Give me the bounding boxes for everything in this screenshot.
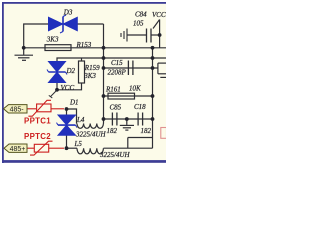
- svg-text:3225/4UH: 3225/4UH: [75, 131, 107, 139]
- svg-text:PPTC2: PPTC2: [24, 132, 51, 141]
- svg-text:2208P: 2208P: [108, 69, 127, 77]
- svg-text:485-: 485-: [10, 107, 25, 114]
- svg-text:R161: R161: [105, 85, 121, 93]
- svg-text:3225/4UH: 3225/4UH: [99, 151, 131, 159]
- svg-text:182: 182: [141, 127, 152, 135]
- svg-text:C84: C84: [135, 11, 147, 19]
- svg-text:3K3: 3K3: [83, 72, 96, 80]
- svg-text:VCC: VCC: [152, 11, 166, 19]
- svg-text:VCC: VCC: [61, 84, 75, 92]
- svg-text:C85: C85: [110, 103, 122, 111]
- svg-text:L5: L5: [74, 140, 83, 148]
- svg-text:R159: R159: [84, 64, 100, 72]
- svg-text:C18: C18: [134, 103, 146, 111]
- svg-text:D2: D2: [66, 67, 76, 75]
- svg-text:C15: C15: [111, 59, 123, 67]
- svg-text:3K3: 3K3: [46, 36, 59, 44]
- svg-text:PPTC1: PPTC1: [24, 117, 51, 126]
- svg-text:182: 182: [107, 127, 118, 135]
- svg-text:105: 105: [133, 20, 144, 28]
- svg-text:D1: D1: [69, 99, 79, 107]
- svg-text:R153: R153: [76, 41, 92, 49]
- svg-text:L4: L4: [76, 116, 85, 124]
- svg-text:10K: 10K: [129, 84, 141, 92]
- svg-text:485+: 485+: [10, 146, 26, 153]
- svg-text:D3: D3: [63, 9, 73, 17]
